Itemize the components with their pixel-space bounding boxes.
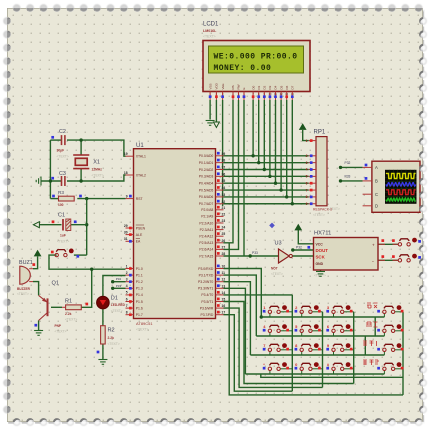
scope trace green xyxy=(386,198,416,201)
svg-text:30: 30 xyxy=(124,230,128,234)
wire LED D1 to P1.1 xyxy=(103,276,126,297)
svg-text:31: 31 xyxy=(124,237,128,241)
wire keypad column verticals xyxy=(291,295,293,391)
svg-text:B: B xyxy=(375,179,378,184)
svg-text:<TEXT>: <TEXT> xyxy=(55,329,67,333)
wire R2 to ground xyxy=(102,344,104,360)
svg-text:P32: P32 xyxy=(296,246,302,250)
svg-text:2: 2 xyxy=(306,154,308,158)
svg-text:19: 19 xyxy=(124,152,128,156)
svg-text:4: 4 xyxy=(306,168,308,172)
svg-text:VCC: VCC xyxy=(316,243,324,247)
wire HX711 GND to ground xyxy=(314,262,321,272)
svg-text:18: 18 xyxy=(124,171,128,175)
svg-text:7: 7 xyxy=(126,304,128,308)
svg-text:35: 35 xyxy=(222,179,226,183)
transistor Q1 PNP xyxy=(47,298,49,316)
svg-text:2.2k: 2.2k xyxy=(108,336,115,340)
svg-text:E: E xyxy=(242,87,246,89)
svg-text:<TEXT>: <TEXT> xyxy=(92,174,104,178)
svg-text:P33: P33 xyxy=(345,175,351,179)
svg-text:D2: D2 xyxy=(263,85,267,89)
svg-text:P2.2/A10: P2.2/A10 xyxy=(199,221,213,225)
ground under R2 xyxy=(98,360,107,365)
svg-text:P2.0/A8: P2.0/A8 xyxy=(201,208,213,212)
svg-text:P32: P32 xyxy=(116,277,122,281)
wire P3.7 to keypad column 1 bottom xyxy=(224,315,293,392)
scope trace red xyxy=(386,190,416,195)
svg-text:GND: GND xyxy=(316,262,324,266)
svg-text:D3: D3 xyxy=(268,85,272,89)
svg-text:D6: D6 xyxy=(285,85,289,89)
svg-text:13: 13 xyxy=(222,284,226,288)
wire P3.4 to keypad column 1 top xyxy=(224,294,293,296)
wire LCD RS vertical to P2.5 row xyxy=(224,100,234,243)
svg-text:C: C xyxy=(375,192,378,197)
wire HX711 minus to load cell button xyxy=(378,259,398,261)
wire LED D1 to R2 xyxy=(102,309,104,326)
wire C1 row xyxy=(40,224,62,226)
svg-text:R3: R3 xyxy=(58,190,64,195)
svg-text:VSS: VSS xyxy=(208,83,212,89)
svg-text:LM016L: LM016L xyxy=(203,29,217,33)
keypad button row2 col4 xyxy=(383,333,385,336)
svg-text:VEE: VEE xyxy=(221,83,225,89)
resistor R1 2.2k xyxy=(66,305,82,310)
U1 left pins P1.0-P1.7 xyxy=(126,268,134,270)
svg-text:BUZZER: BUZZER xyxy=(17,287,31,291)
svg-text:<TEXT>: <TEXT> xyxy=(108,342,120,346)
svg-text:32: 32 xyxy=(222,200,226,204)
ground under Q1 xyxy=(34,331,43,336)
svg-text:5: 5 xyxy=(306,175,308,179)
U1 right pins P2.0-P2.7 xyxy=(216,209,224,211)
svg-text:<TEXT>: <TEXT> xyxy=(111,309,123,313)
resistor R2 2.2k vertical xyxy=(101,326,106,344)
keypad label danjia1 xyxy=(363,341,377,346)
svg-text:LCD1: LCD1 xyxy=(203,22,219,28)
capacitor C1 electrolytic xyxy=(62,219,64,231)
capacitor C3 xyxy=(62,176,65,186)
keypad button row3 col2 xyxy=(301,352,303,355)
LCD screen xyxy=(209,46,304,73)
wire LCD D0-D7 bus verticals to P0 rows xyxy=(252,100,254,156)
oscilloscope xyxy=(372,161,420,212)
ground under LCD VSS xyxy=(206,121,215,126)
svg-text:P1.0: P1.0 xyxy=(136,267,143,271)
svg-text:P3.7/RD: P3.7/RD xyxy=(200,313,213,317)
wire scope channel A net P32 xyxy=(341,166,363,168)
keypad button row1 col1 xyxy=(269,314,271,317)
ground left of C3 xyxy=(36,177,41,186)
svg-text:RST: RST xyxy=(136,197,143,201)
power arrow above HX711 xyxy=(295,225,301,231)
svg-text:P1.1: P1.1 xyxy=(136,273,143,277)
wire LCD RW vertical to P2.6 row xyxy=(224,100,239,249)
svg-text:VDD: VDD xyxy=(215,82,219,89)
svg-text:37: 37 xyxy=(222,166,226,170)
keypad button row3 col4 xyxy=(383,352,385,355)
wire LCD VDD to power xyxy=(215,100,217,122)
svg-text:22: 22 xyxy=(222,212,226,216)
node P33 terminal at P1.3 xyxy=(113,287,126,289)
wire reset button right xyxy=(74,254,87,256)
svg-text:29: 29 xyxy=(124,224,128,228)
svg-text:P33: P33 xyxy=(252,251,258,255)
load cell button plus xyxy=(398,238,417,246)
power arrow above RP1 xyxy=(300,124,306,130)
wire crystal pins xyxy=(80,140,82,155)
svg-text:P3.0/RXD: P3.0/RXD xyxy=(198,267,214,271)
svg-text:PNP: PNP xyxy=(55,324,62,328)
svg-text:EA: EA xyxy=(136,240,141,244)
scope input pins A B C D xyxy=(363,166,372,168)
svg-text:C3: C3 xyxy=(59,171,66,177)
wire C2-gnd vertical xyxy=(49,140,51,199)
svg-text:<TEXT>: <TEXT> xyxy=(57,155,69,159)
keypad button row3 col1 xyxy=(269,352,271,355)
U1 right pins P3.0-P3.7 xyxy=(216,268,224,270)
wire reset resistor node xyxy=(50,198,58,200)
wire R1 to P1.0 node riser xyxy=(81,269,91,307)
svg-text:28: 28 xyxy=(222,252,226,256)
keypad button row2 col2 xyxy=(301,333,303,336)
node P32 terminal at P1.2 xyxy=(113,281,126,283)
svg-text:PSEN: PSEN xyxy=(136,226,146,230)
svg-text:P2.4/A12: P2.4/A12 xyxy=(199,235,213,239)
svg-text:ALE: ALE xyxy=(136,233,143,237)
svg-text:P0.1/AD1: P0.1/AD1 xyxy=(199,161,214,165)
wire LCD VSS to ground xyxy=(209,100,211,120)
svg-text:X1: X1 xyxy=(93,160,100,166)
svg-text:P0.6/AD6: P0.6/AD6 xyxy=(199,195,214,199)
svg-text:<TEXT>: <TEXT> xyxy=(65,318,77,322)
svg-text:DOUT: DOUT xyxy=(316,248,329,253)
svg-text:12: 12 xyxy=(222,278,226,282)
keypad button row2 col3 xyxy=(333,333,335,336)
wire keypad function column risers xyxy=(374,317,376,336)
wire keypad row4 bottom wrap xyxy=(261,374,403,377)
keypad button row1 col3 xyxy=(333,314,335,317)
wire P2.5 keypad column 4 feed xyxy=(229,243,403,395)
svg-text:RW: RW xyxy=(237,84,241,89)
U1 left pins PSEN ALE EA xyxy=(126,227,134,229)
svg-text:3: 3 xyxy=(126,278,128,282)
wire NOT gate output to HX711 SCK xyxy=(292,255,313,257)
wire P3.3 to keypad row 4 xyxy=(224,288,246,374)
svg-text:P1.7: P1.7 xyxy=(136,313,143,317)
svg-text:D1: D1 xyxy=(257,85,261,89)
svg-text:<TEXT>: <TEXT> xyxy=(313,213,325,217)
svg-text:RS: RS xyxy=(231,85,235,89)
resistor R3 100 xyxy=(59,196,75,201)
svg-text:P0.5/AD5: P0.5/AD5 xyxy=(199,188,214,192)
svg-text:-: - xyxy=(372,259,374,265)
svg-text:<TEXT>: <TEXT> xyxy=(136,328,149,332)
scope trace blue xyxy=(386,183,416,187)
svg-text:1: 1 xyxy=(126,264,128,268)
svg-text:1uF: 1uF xyxy=(60,234,66,238)
HX711 right stub squares xyxy=(381,239,384,242)
keypad button row4 col4 xyxy=(383,371,385,374)
svg-text:LED-RED: LED-RED xyxy=(111,303,126,307)
wire Q1 base to R1 xyxy=(51,306,62,308)
svg-text:P3.4/T0: P3.4/T0 xyxy=(201,293,213,297)
svg-text:P0.7/AD7: P0.7/AD7 xyxy=(199,202,214,206)
svg-text:30pF: 30pF xyxy=(57,149,65,153)
power arrow above buzzer xyxy=(34,251,40,257)
wire P3.2 to keypad row 3 xyxy=(224,282,251,355)
svg-text:<TEXT>: <TEXT> xyxy=(203,35,216,39)
svg-text:HX711: HX711 xyxy=(314,231,331,237)
keypad button row2 col1 xyxy=(269,333,271,336)
keypad row wires xyxy=(261,316,384,318)
keypad button row4 col2 xyxy=(301,371,303,374)
svg-text:1: 1 xyxy=(306,139,308,143)
svg-text:P0.0/AD0: P0.0/AD0 xyxy=(199,154,214,158)
wire P32 net to HX711 DOUT xyxy=(293,249,314,251)
svg-text:P3.6/WR: P3.6/WR xyxy=(200,306,214,310)
load cell button minus xyxy=(398,254,417,262)
svg-text:P1.3: P1.3 xyxy=(136,287,143,291)
svg-text:D5: D5 xyxy=(279,85,283,89)
svg-text:P2.6/A14: P2.6/A14 xyxy=(199,248,213,252)
ground under HX711 xyxy=(316,272,325,277)
svg-text:P1.4: P1.4 xyxy=(136,293,143,297)
push button reset xyxy=(55,249,74,257)
microcontroller U1 AT89C51 xyxy=(134,149,216,319)
svg-text:AT89C51: AT89C51 xyxy=(136,321,153,326)
svg-text:A: A xyxy=(375,165,378,170)
svg-text:P0.4/AD4: P0.4/AD4 xyxy=(199,182,214,186)
svg-text:P3.1/TXD: P3.1/TXD xyxy=(199,273,214,277)
svg-text:D0: D0 xyxy=(251,85,255,89)
svg-text:25: 25 xyxy=(222,232,226,236)
svg-text:R2: R2 xyxy=(108,328,115,334)
svg-text:P0.2/AD2: P0.2/AD2 xyxy=(199,168,214,172)
svg-text:P1.5: P1.5 xyxy=(136,300,143,304)
svg-text:<TEXT>: <TEXT> xyxy=(328,207,340,211)
keypad button row3 col3 xyxy=(333,352,335,355)
origin marker diamond xyxy=(269,223,275,229)
svg-text:+: + xyxy=(372,242,375,247)
wire scope channel B net P33 xyxy=(341,180,363,182)
wire P3.6 to keypad column 2 bottom xyxy=(224,308,323,387)
svg-text:10: 10 xyxy=(222,265,226,269)
svg-text:27: 27 xyxy=(222,245,226,249)
svg-text:16: 16 xyxy=(222,304,226,308)
svg-text:9: 9 xyxy=(306,202,308,206)
svg-text:D4: D4 xyxy=(274,85,278,89)
svg-text:7: 7 xyxy=(306,188,308,192)
RP1 pins 2-9 xyxy=(309,155,316,157)
wire buzzer bottom to Q1 emitter xyxy=(33,282,39,296)
svg-text:5: 5 xyxy=(126,291,128,295)
svg-text:34: 34 xyxy=(222,186,226,190)
wire P3.0 to keypad row 1 xyxy=(224,269,262,318)
svg-text:XTAL2: XTAL2 xyxy=(136,173,146,177)
svg-text:3: 3 xyxy=(306,161,308,165)
keypad button row1 col4 xyxy=(383,314,385,317)
node P33 junction at NOT input xyxy=(249,254,252,257)
wire LCD E vertical to P2.7 row / NOT gate input xyxy=(243,100,245,256)
svg-text:6: 6 xyxy=(306,181,308,185)
svg-text:U3: U3 xyxy=(275,241,282,247)
svg-text:WE:0.000 PR:00.0: WE:0.000 PR:00.0 xyxy=(214,52,298,61)
keypad button row1 col2 xyxy=(301,314,303,317)
LED D1 red xyxy=(97,296,110,309)
svg-text:26: 26 xyxy=(222,239,226,243)
svg-text:P0.3/AD3: P0.3/AD3 xyxy=(199,175,214,179)
svg-text:21: 21 xyxy=(222,206,226,210)
svg-text:36: 36 xyxy=(222,172,226,176)
svg-text:8: 8 xyxy=(306,195,308,199)
wire HX711 power arrow to VCC xyxy=(298,230,313,244)
crystal X1 xyxy=(73,154,89,156)
U1 right pins P0.0-P0.7 xyxy=(216,155,224,157)
svg-text:P3.3/INT1: P3.3/INT1 xyxy=(198,287,213,291)
svg-text:D7: D7 xyxy=(291,85,295,89)
wire RST node vertical xyxy=(86,199,88,256)
svg-text:2: 2 xyxy=(126,271,128,275)
wire P3.1 to keypad row 2 xyxy=(224,275,257,336)
svg-text:NOT: NOT xyxy=(271,267,278,271)
svg-text:P2.1/A9: P2.1/A9 xyxy=(201,215,213,219)
wire HX711 plus to load cell button xyxy=(378,243,398,245)
scope trace yellow xyxy=(386,173,416,178)
svg-text:12MHz: 12MHz xyxy=(92,168,103,172)
svg-text:17: 17 xyxy=(222,311,226,315)
svg-text:P33: P33 xyxy=(116,284,122,288)
svg-text:RP1: RP1 xyxy=(314,130,326,136)
svg-text:<TEXT>: <TEXT> xyxy=(17,292,29,296)
svg-text:9: 9 xyxy=(126,194,128,198)
keypad label qupi xyxy=(367,303,378,308)
svg-text:100: 100 xyxy=(58,203,64,207)
wire buzzer top to power xyxy=(33,257,38,269)
keypad button row4 col3 xyxy=(333,371,335,374)
svg-text:P1.6: P1.6 xyxy=(136,306,143,310)
keypad button row4 col1 xyxy=(269,371,271,374)
svg-text:14: 14 xyxy=(222,291,226,295)
resistor pack RP1 RESPACK-8 xyxy=(316,137,327,206)
wire Q1 collector to ground xyxy=(38,321,40,331)
svg-text:<TEXT>: <TEXT> xyxy=(57,240,69,244)
svg-text:24: 24 xyxy=(222,226,226,230)
svg-text:P2.5/A13: P2.5/A13 xyxy=(199,241,213,245)
RP1 pin 1 xyxy=(309,140,316,142)
svg-text:P3.5/T1: P3.5/T1 xyxy=(201,300,213,304)
wire RP1 pin1 to power xyxy=(303,130,309,141)
oscilloscope screen xyxy=(385,170,417,204)
wire P0 bus rows MCU to RP1 xyxy=(224,155,309,157)
svg-text:Q1: Q1 xyxy=(52,281,59,287)
svg-text:39: 39 xyxy=(222,152,226,156)
svg-text:<TEXT>: <TEXT> xyxy=(271,272,283,276)
LCD pin stubs xyxy=(209,92,211,101)
svg-text:11: 11 xyxy=(222,271,226,275)
svg-text:33: 33 xyxy=(222,193,226,197)
capacitor C2 xyxy=(62,135,65,145)
svg-text:P1.2: P1.2 xyxy=(136,280,143,284)
svg-text:C2: C2 xyxy=(59,129,66,135)
junction dots D-bus to P0 xyxy=(251,154,254,157)
wire reset button left xyxy=(49,255,126,269)
svg-text:2.2k: 2.2k xyxy=(65,312,72,316)
wire LCD VEE vertical xyxy=(222,100,224,206)
svg-text:P32: P32 xyxy=(345,161,351,165)
inverter U3 NOT xyxy=(279,249,290,263)
svg-text:4: 4 xyxy=(126,284,128,288)
svg-text:D1: D1 xyxy=(111,296,118,302)
wire P3.5 to keypad column 3 bottom xyxy=(224,302,354,384)
svg-text:D: D xyxy=(375,203,378,208)
svg-text:R1: R1 xyxy=(65,299,72,305)
power down-arrow under LCD VDD xyxy=(213,122,219,128)
svg-text:SCK: SCK xyxy=(316,255,326,260)
U1 left pins XTAL1 XTAL2 RST xyxy=(126,155,134,157)
svg-text:MONEY: 0.00: MONEY: 0.00 xyxy=(214,64,272,73)
power input arrow left xyxy=(33,222,39,228)
svg-text:23: 23 xyxy=(222,219,226,223)
keypad label qingchu xyxy=(367,322,378,327)
svg-text:XTAL1: XTAL1 xyxy=(136,155,146,159)
svg-text:8: 8 xyxy=(126,311,128,315)
svg-text:15: 15 xyxy=(222,298,226,302)
svg-text:U1: U1 xyxy=(136,143,144,149)
svg-text:6: 6 xyxy=(126,297,128,301)
keypad label danjia2 xyxy=(363,360,378,365)
svg-text:38: 38 xyxy=(222,159,226,163)
buzzer BUZ1 xyxy=(20,266,31,284)
svg-text:P2.3/A11: P2.3/A11 xyxy=(200,228,214,232)
svg-text:P3.2/INT0: P3.2/INT0 xyxy=(198,280,213,284)
svg-text:BUZ1: BUZ1 xyxy=(19,260,33,266)
wire crystal network xyxy=(50,139,61,141)
load cell amp HX711 xyxy=(314,238,379,271)
svg-text:C1: C1 xyxy=(58,213,65,219)
svg-text:P2.7/A15: P2.7/A15 xyxy=(199,254,213,258)
